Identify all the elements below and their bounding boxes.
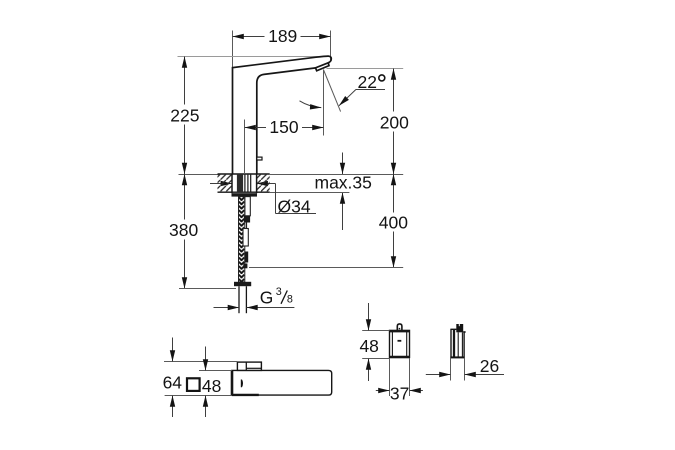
svg-text:380: 380 xyxy=(169,220,198,240)
control box side dark band xyxy=(453,330,455,358)
dimension 64 upper arrow xyxy=(172,338,174,362)
extension line deck bottom xyxy=(270,192,350,194)
top view base thick bottom edge xyxy=(232,394,259,396)
extension line 37 right xyxy=(409,358,411,396)
control box side right wall xyxy=(463,332,465,358)
control box front top thick edge xyxy=(390,330,410,332)
mounting flange xyxy=(232,193,258,196)
control box plug dome xyxy=(397,324,402,331)
extension line 37 left xyxy=(389,358,391,396)
svg-text:400: 400 xyxy=(379,212,408,232)
cable sleeve xyxy=(243,229,248,247)
extension line deck right xyxy=(270,174,404,176)
body side passes deck right xyxy=(256,174,258,193)
shank wall lines xyxy=(244,175,246,193)
svg-text:37: 37 xyxy=(390,384,409,404)
control box front inner right xyxy=(406,330,408,357)
svg-text:max.35: max.35 xyxy=(315,173,372,193)
threaded rod xyxy=(239,197,245,282)
control box plug dash xyxy=(399,328,401,330)
deck hatch right xyxy=(257,175,270,192)
extension line 189 right xyxy=(330,31,332,63)
svg-text:G: G xyxy=(260,287,274,307)
control box side bottom bar xyxy=(450,356,464,358)
dimension G3/8 right arrow xyxy=(246,307,294,309)
dimension 48 upper arrow xyxy=(205,347,207,371)
svg-text:Ø34: Ø34 xyxy=(278,196,311,216)
svg-text:225: 225 xyxy=(170,105,199,125)
dimension 400 xyxy=(393,174,395,268)
dimension 26 right arrow xyxy=(465,374,505,376)
sensor cable tube xyxy=(245,197,250,216)
top view outlet inner line xyxy=(246,367,261,369)
top view base thick left edge xyxy=(231,370,234,395)
aerator xyxy=(316,63,330,71)
svg-text:48: 48 xyxy=(202,376,221,396)
dimension 48 box upper arrow xyxy=(368,303,370,331)
dimension max.35 lower arrow xyxy=(342,193,344,231)
extension line 189 left xyxy=(232,31,234,68)
top view spout outlet box xyxy=(237,362,261,370)
leader diameter 34 left arrow xyxy=(210,183,232,185)
control box side plug nub xyxy=(463,331,465,333)
dimension 37 right arrow xyxy=(410,390,423,392)
svg-text:64: 64 xyxy=(163,372,183,392)
leader 22 degrees xyxy=(339,89,356,105)
label square symbol xyxy=(187,378,200,391)
shank cross-section dark band xyxy=(237,175,243,192)
dimension max.35 upper arrow xyxy=(342,153,344,175)
svg-text:48: 48 xyxy=(359,336,378,356)
extension line spout outlet xyxy=(327,68,404,70)
extension line 64 top xyxy=(164,361,237,363)
extension line 48 top xyxy=(199,370,232,372)
body side passes deck left xyxy=(231,174,233,193)
dimension 48 lower arrow xyxy=(205,396,207,418)
dimension 380 xyxy=(184,174,186,289)
label 22 underline xyxy=(356,89,385,91)
extension line bottom xyxy=(165,395,232,397)
dimension 150 xyxy=(245,127,324,129)
extension line 48 box top xyxy=(362,330,389,332)
extension line 400 bottom xyxy=(249,267,403,269)
deck top line xyxy=(218,173,270,175)
swivel arc arrow xyxy=(300,101,322,108)
cable connector upper xyxy=(244,216,250,223)
top view sensor dot xyxy=(241,380,243,388)
control box front bottom thick edge xyxy=(390,356,410,358)
control box side plug notch xyxy=(459,324,460,326)
svg-text:26: 26 xyxy=(480,356,499,376)
dimension G3/8 left arrow xyxy=(214,307,240,309)
dimension 200 xyxy=(393,69,395,175)
water flow line xyxy=(323,70,325,136)
top view outlet divider xyxy=(245,362,247,370)
control box side inner lines xyxy=(457,332,459,357)
faucet inner profile xyxy=(257,68,316,174)
spray angle line xyxy=(323,70,340,112)
control box side left wall xyxy=(450,329,452,358)
svg-text:200: 200 xyxy=(380,112,409,132)
sensor window tab xyxy=(257,157,262,160)
extension line 26 left xyxy=(450,358,452,381)
dimension 189 xyxy=(233,36,331,38)
label diameter 34 underline xyxy=(276,213,317,215)
cable connector lower xyxy=(244,252,248,263)
deck bottom line xyxy=(218,191,270,193)
svg-text:3: 3 xyxy=(276,286,282,298)
cable end xyxy=(243,264,247,269)
dimension 225 xyxy=(184,57,186,175)
extension line 380 bottom xyxy=(179,288,236,290)
leader diameter 34 right arrow xyxy=(257,183,276,185)
deck hatch left xyxy=(218,175,233,192)
control box front xyxy=(390,330,410,357)
dimension 37 left arrow xyxy=(376,390,390,392)
extension line 150 left xyxy=(244,120,246,175)
svg-text:22: 22 xyxy=(358,72,377,92)
leader diameter 34 vertical xyxy=(275,184,277,214)
G3/8 nut xyxy=(234,282,251,286)
control box side plug xyxy=(456,324,463,332)
extension line top of spout xyxy=(178,56,332,58)
control box dash xyxy=(398,340,402,342)
svg-text:189: 189 xyxy=(268,26,297,46)
svg-text:150: 150 xyxy=(269,117,298,137)
faucet outer profile xyxy=(233,56,332,174)
svg-text:8: 8 xyxy=(287,294,293,306)
extension line 48 box bottom xyxy=(362,358,389,360)
top view body xyxy=(232,370,332,395)
dimension 48 box lower arrow xyxy=(368,359,370,382)
dimension 64 lower arrow xyxy=(172,396,174,418)
supply tube left wall xyxy=(238,286,240,313)
extension line 26 right xyxy=(464,358,466,381)
dimension 26 left arrow xyxy=(426,374,451,376)
supply tube right wall xyxy=(245,286,247,313)
cable line xyxy=(246,223,248,229)
control box side top edge xyxy=(450,328,456,330)
extension line deck left xyxy=(179,174,220,176)
control box front inner left xyxy=(391,330,393,357)
